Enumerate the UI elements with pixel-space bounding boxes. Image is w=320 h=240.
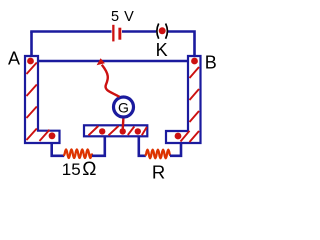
wire: from 15 ohm to central strip left	[92, 136, 105, 156]
resistor R coil	[145, 150, 170, 159]
central strip right dot	[135, 128, 141, 134]
svg-text:Ω: Ω	[82, 159, 96, 180]
right strip foot contact dot	[175, 133, 182, 140]
wire: top rail between battery and key K	[122, 30, 156, 33]
galvanometer G circle	[114, 97, 134, 117]
svg-text:A: A	[8, 49, 20, 69]
key K: right parenthesis	[166, 24, 168, 39]
svg-text:R: R	[152, 162, 165, 181]
wire: left foot down and across to 15 ohm resistor	[52, 143, 64, 156]
resistor 15 ohm coil	[64, 149, 93, 158]
svg-text:B: B	[205, 53, 217, 73]
node A dot	[27, 58, 34, 65]
left strip foot contact dot	[49, 132, 56, 139]
jockey: red curved lead from G to bridge wire	[102, 65, 120, 97]
central strip left dot	[99, 128, 105, 134]
copper strip left (L-shape, hatched)	[25, 56, 60, 143]
central copper strip (hatched, three contact dots)	[84, 125, 147, 136]
key K: red contact dot	[159, 27, 166, 34]
galvanometer red lead to middle strip dot	[121, 116, 124, 130]
svg-text:K: K	[156, 40, 168, 60]
wire: top rail left segment to battery	[30, 30, 111, 33]
svg-text:G: G	[118, 99, 129, 115]
svg-text:V: V	[124, 9, 134, 25]
copper strip right (mirrored L-shape, hatched)	[166, 56, 201, 143]
battery cell: short plate	[118, 28, 121, 40]
jockey arrowhead on bridge wire	[97, 58, 105, 65]
wire: central strip right down and across to resistor R	[139, 136, 146, 156]
battery cell: long plate	[112, 25, 114, 42]
wire: from R up to right strip foot	[170, 142, 181, 156]
svg-text:5: 5	[111, 9, 119, 25]
svg-text:15: 15	[62, 160, 81, 179]
wire: bridge wire from A to B	[33, 60, 196, 63]
central strip middle dot	[120, 128, 126, 134]
node B dot	[191, 58, 198, 65]
wire: top left riser from A strip to top rail	[30, 32, 33, 58]
key K: left parenthesis	[157, 24, 159, 39]
wire: top rail from key to right corner and riser down to B	[168, 32, 195, 58]
